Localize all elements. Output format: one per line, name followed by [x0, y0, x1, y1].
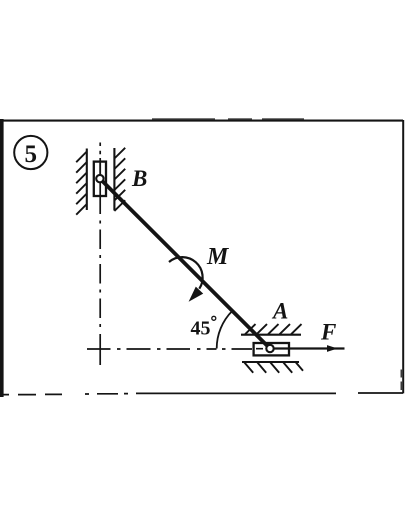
lower guide hatching	[244, 362, 303, 373]
45 degree arc	[217, 311, 233, 349]
upper guide line at A	[241, 334, 301, 336]
frame top border	[1, 120, 403, 122]
svg-text:45: 45	[191, 318, 211, 340]
frame right border inner ghost dashes	[400, 370, 402, 391]
moment arc M	[169, 257, 203, 289]
left rail hatching	[76, 152, 87, 215]
vertical dash-dot centerline through B	[99, 143, 101, 366]
horizontal dash-dot centerline through A	[87, 348, 263, 350]
pin A	[266, 345, 273, 352]
force F arrowhead	[327, 345, 338, 352]
centerline dash inside slider B	[99, 163, 101, 174]
upper guide hatching	[245, 324, 302, 334]
left guide rail at B	[86, 149, 88, 211]
moment arrowhead	[189, 287, 204, 302]
frame right border	[402, 120, 404, 393]
svg-text:B: B	[131, 166, 147, 191]
svg-text:A: A	[271, 299, 288, 324]
svg-text:F: F	[320, 320, 336, 345]
frame bottom border	[0, 393, 403, 395]
svg-text:5: 5	[25, 141, 38, 168]
frame top border ghost line	[152, 118, 304, 120]
svg-text:M: M	[206, 244, 230, 270]
circle label 5	[14, 136, 47, 169]
force F line	[270, 347, 345, 349]
rod AB	[100, 179, 270, 349]
frame left border	[0, 119, 4, 397]
right guide rail at B	[113, 148, 115, 211]
slider block B	[94, 162, 106, 196]
pin B	[96, 175, 103, 182]
lower guide line at A	[242, 361, 299, 363]
slider block A	[254, 343, 289, 355]
right rail hatching	[114, 148, 125, 211]
